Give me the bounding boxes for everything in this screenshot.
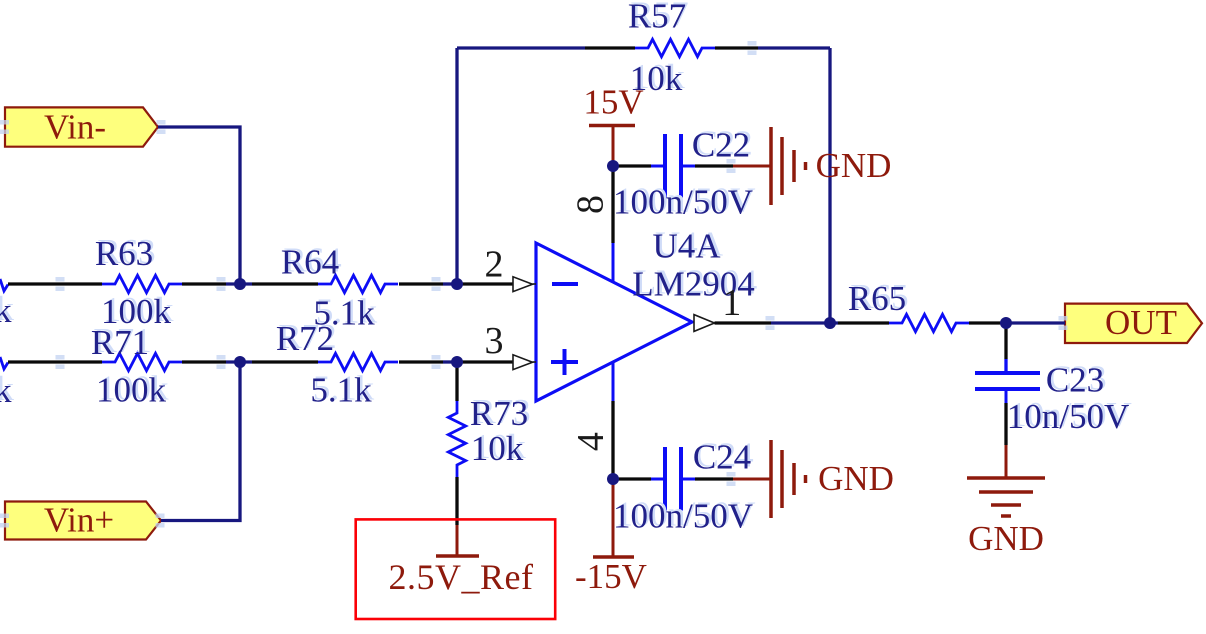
- wire node B to R73: [455, 362, 458, 401]
- port flag Vin+: [5, 501, 161, 540]
- capacitor C24: [613, 438, 753, 536]
- svg-text:C23: C23: [1046, 361, 1104, 400]
- svg-text:5.1k: 5.1k: [310, 371, 372, 410]
- svg-text:4: 4: [570, 432, 612, 451]
- power symbol 15V: [583, 83, 643, 163]
- wire feedback top stub left of R57: [585, 46, 635, 49]
- resistor tail offscreen row B: [0, 357, 8, 369]
- wire node E to C23: [1004, 323, 1007, 359]
- power symbol 2.5V_Ref: [389, 525, 534, 597]
- resistor R72: [276, 319, 398, 410]
- svg-text:R73: R73: [470, 394, 528, 433]
- ground GND right of C24: [733, 440, 894, 518]
- wire Vin+ to node B: [161, 362, 240, 521]
- pin 8 lead blue: [612, 243, 615, 283]
- wire Vin- to node A: [158, 127, 240, 284]
- pin 1 arrow: [694, 282, 741, 331]
- svg-text:R65: R65: [848, 279, 906, 318]
- wire feedback right vertical: [828, 48, 831, 323]
- svg-text:10k: 10k: [471, 429, 524, 468]
- wire node E to OUT: [1000, 321, 1065, 324]
- junction node D: [451, 356, 463, 368]
- resistor tail offscreen row A: [0, 279, 8, 291]
- svg-text:8: 8: [569, 195, 611, 214]
- svg-text:R57: R57: [628, 0, 686, 36]
- ground GND right of C22: [733, 127, 891, 205]
- junction node E: [1000, 317, 1012, 329]
- wire row A segment 5 to pin 2: [457, 282, 513, 285]
- resistor R65: [848, 279, 969, 332]
- wire C24 right: [695, 477, 733, 480]
- power symbol -15V: [575, 484, 647, 596]
- wire feedback top right: [758, 46, 830, 49]
- wire output to R65: [838, 321, 889, 324]
- ground GND below C23: [967, 445, 1045, 558]
- svg-text:GND: GND: [818, 459, 894, 498]
- junction node B: [234, 356, 246, 368]
- svg-text:R63: R63: [95, 234, 153, 273]
- wire row A navy stub at node A: [226, 282, 252, 285]
- wire row A segment 3: [252, 282, 318, 285]
- svg-text:k: k: [0, 371, 12, 410]
- wire feedback left vertical: [455, 48, 458, 284]
- svg-text:R72: R72: [276, 319, 334, 358]
- svg-text:2.5V_Ref: 2.5V_Ref: [389, 557, 534, 597]
- wire row B navy stub at node D: [443, 360, 457, 363]
- wire row A navy stub at node C: [443, 282, 457, 285]
- wire row B segment 1: [8, 360, 102, 363]
- wire pin 8 column black: [611, 166, 614, 243]
- resistor R63: [95, 234, 182, 331]
- port flag OUT: [1065, 303, 1202, 343]
- wire C23 to ground: [1004, 403, 1007, 445]
- wire row B segment 3: [252, 360, 318, 363]
- port flag Vin-: [5, 107, 158, 146]
- capacitor C23: [975, 359, 1129, 436]
- wire R65 to node E: [969, 321, 1000, 324]
- wire row B segment 4: [399, 360, 443, 363]
- wire pin 4 column black: [611, 401, 614, 479]
- pin 3 arrow: [485, 320, 537, 370]
- svg-text:10n/50V: 10n/50V: [1007, 397, 1130, 436]
- svg-text:2: 2: [485, 244, 504, 286]
- svg-text:GND: GND: [968, 519, 1044, 558]
- wire output black: [715, 321, 772, 324]
- wire feedback top left: [457, 46, 585, 49]
- wire C22 left: [613, 164, 651, 167]
- wire row B navy stub at node B: [226, 360, 252, 363]
- red highlight box: [356, 519, 556, 619]
- svg-text:R71: R71: [91, 323, 149, 362]
- junction node A: [234, 278, 246, 290]
- svg-text:15V: 15V: [583, 83, 643, 122]
- pin 2 arrow: [485, 244, 537, 292]
- resistor R64: [281, 243, 398, 333]
- resistor R73: [448, 394, 528, 477]
- wire row B segment 5 to pin 3: [457, 360, 513, 363]
- wire output navy: [771, 321, 838, 324]
- hotspot markers: [0, 41, 1068, 528]
- svg-text:Vin+: Vin+: [44, 501, 114, 540]
- svg-text:U4A: U4A: [652, 227, 721, 266]
- svg-text:R64: R64: [281, 243, 339, 282]
- wire row A segment 4: [399, 282, 443, 285]
- wire feedback top stub right of R57: [715, 46, 758, 49]
- svg-text:GND: GND: [816, 146, 892, 185]
- svg-text:100n/50V: 100n/50V: [613, 497, 753, 536]
- svg-text:100k: 100k: [96, 371, 167, 410]
- wire row A segment 2: [182, 282, 226, 285]
- junction node pin8: [607, 160, 619, 172]
- wire C22 right: [695, 164, 733, 167]
- svg-text:3: 3: [485, 320, 504, 362]
- junction node pin4: [607, 473, 619, 485]
- svg-text:Vin-: Vin-: [44, 108, 106, 147]
- svg-text:100n/50V: 100n/50V: [613, 183, 753, 222]
- resistor R71: [91, 323, 182, 410]
- wire row A segment 1: [8, 282, 102, 285]
- resistor R57: [628, 0, 715, 98]
- svg-text:C24: C24: [693, 438, 751, 477]
- wire C24 left: [613, 477, 651, 480]
- svg-text:-15V: -15V: [575, 557, 647, 596]
- svg-text:C22: C22: [692, 126, 750, 165]
- junction node feedback-output: [824, 317, 836, 329]
- wire R73 to 2.5V_Ref: [455, 477, 458, 525]
- junction node C: [451, 278, 463, 290]
- capacitor C22: [613, 126, 753, 222]
- op-amp U4A: [536, 227, 755, 402]
- svg-text:OUT: OUT: [1105, 303, 1177, 342]
- pin 4 lead blue: [612, 362, 615, 401]
- svg-text:k: k: [0, 291, 12, 330]
- svg-text:1: 1: [722, 282, 741, 324]
- wire row B segment 2: [182, 360, 226, 363]
